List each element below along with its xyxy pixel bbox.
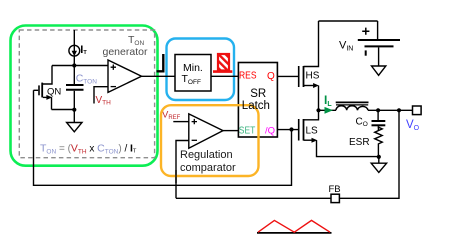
svg-text:Latch: Latch [242, 100, 270, 112]
capacitor C_O [372, 110, 386, 130]
transistor LS [299, 110, 379, 156]
regulation comparator - input mark [192, 139, 197, 141]
inner dashed gray box [19, 30, 154, 158]
wire: FB to regulation comparator [176, 197, 331, 199]
svg-text:SET: SET [239, 125, 256, 137]
HS source arrow [313, 83, 319, 88]
ripple waveform red triangles [258, 220, 330, 232]
svg-text:LS: LS [306, 126, 319, 137]
wire: feedback drop over orange border [175, 170, 177, 183]
op-amp - input mark [111, 86, 116, 88]
wire: Qbar to LS gate [277, 129, 298, 131]
svg-text:QN: QN [47, 86, 61, 97]
TON generator green rounded box [11, 26, 158, 166]
FB terminal square [331, 194, 339, 202]
ground (TON generator) [67, 110, 82, 132]
svg-text:RES: RES [239, 70, 257, 82]
QN source arrow [46, 95, 52, 100]
wire: current source to node [73, 56, 75, 65]
rising edge glyph [157, 54, 164, 71]
svg-text:HS: HS [306, 71, 320, 82]
node: junction under current source [72, 63, 76, 67]
red hatched one-shot symbol [218, 54, 229, 71]
ripple waveform baseline [257, 232, 332, 234]
battery + mark [362, 28, 369, 35]
node: ESR bottom junction [377, 155, 381, 159]
output terminal square [413, 106, 422, 115]
wire: Qbar junction down to bottom rail [34, 90, 292, 185]
wire: V_TH to - input [94, 87, 108, 104]
svg-text:Regulation: Regulation [180, 149, 233, 161]
svg-text:SR: SR [250, 88, 266, 100]
ground (output) [371, 157, 386, 173]
wire: cap top rail to comparator + input [52, 65, 108, 67]
regulation comparator + input mark [192, 119, 197, 124]
wire: switch node to inductor [319, 109, 337, 111]
wire: feedback to - input [176, 141, 189, 199]
node: cap bottom junction [72, 108, 76, 112]
battery V_IN [358, 21, 400, 75]
op-amp + input mark [111, 65, 116, 70]
battery - mark [365, 50, 367, 55]
wire: top rail [319, 20, 378, 22]
node: Qbar branch junction [289, 127, 293, 131]
SR latch [238, 63, 277, 138]
wire: V_REF stub to + input [173, 121, 189, 123]
node: Co junction [376, 108, 380, 112]
Regulation comparator orange rounded box [161, 105, 259, 176]
wire: comparator output to SET [223, 130, 239, 132]
svg-text:Q: Q [267, 71, 275, 82]
Min Toff blue rounded box [167, 39, 235, 101]
wire: Q to HS gate [277, 75, 298, 77]
svg-text:FB: FB [329, 184, 341, 195]
inductor L [336, 102, 369, 110]
transistor QN [34, 66, 75, 110]
current source I_T [69, 30, 80, 56]
capacitor C_TON [66, 66, 84, 110]
wire: output rail [368, 109, 413, 111]
Min Toff white block [175, 55, 211, 92]
wire: feedback from Vo down to FB and to comparator [340, 110, 400, 198]
current source arrow [72, 51, 77, 57]
node: FB drop junction [397, 108, 401, 112]
node: switch node [316, 108, 320, 112]
regulation comparator op-amp [189, 114, 223, 148]
resistor ESR [375, 126, 383, 157]
svg-text:/Q: /Q [265, 125, 275, 136]
transistor HS [299, 21, 319, 110]
svg-text:comparator: comparator [180, 162, 236, 174]
op-amp comparator (TON) [108, 60, 142, 92]
svg-text:generator: generator [103, 46, 148, 58]
wire: comparator output to SR latch RES [142, 75, 240, 77]
svg-text:ESR: ESR [349, 137, 370, 148]
LS source arrow [312, 138, 318, 143]
inductor current arrow [325, 107, 334, 114]
